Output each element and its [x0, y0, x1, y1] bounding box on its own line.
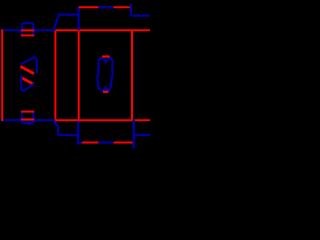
bottom flap F4 left diagonal edge (blue)	[53, 120, 78, 135]
flap F1 left diagonal edge (blue)	[53, 15, 78, 31]
slot right blue edge	[109, 57, 113, 91]
slot top notch V	[102, 58, 110, 62]
tab T1 bottom red cut	[21, 34, 34, 36]
bottom flap F6 bottom edge (blue)	[134, 134, 150, 136]
bottom flap F5 left fold (blue vertical with foot)	[78, 121, 82, 143]
wire: top cut line (red)	[55, 29, 150, 31]
slot bottom notch	[103, 87, 108, 90]
bottom flap F5 bottom edge red	[82, 142, 98, 144]
bottom flap F5 bottom edge blue	[98, 141, 113, 143]
wire: bottom fold line (blue, crease)	[1, 119, 55, 121]
node: panel divider V6 (red cut)	[131, 31, 133, 119]
wire: bottom cut line (red)	[55, 119, 150, 121]
tear glyph red stripe 1	[20, 66, 34, 73]
wire: left edge cut (red vertical)	[1, 29, 3, 121]
tab T1 top (blue outline, rounded top)	[22, 23, 33, 36]
flap F2 top edge segment blue	[98, 6, 113, 8]
slot bottom red cut	[103, 91, 108, 93]
slot top red cut	[102, 55, 110, 57]
tear glyph blue bottom stroke	[21, 76, 34, 91]
bottom flap F6 left fold (blue vertical)	[132, 120, 134, 149]
node: panel divider V5 (red cut)	[78, 31, 80, 119]
tab T2 bottom (blue outline, rounded bottom)	[22, 111, 33, 123]
flap F2 left fold (blue vertical)	[78, 6, 80, 30]
slot left blue edge	[97, 57, 103, 91]
tear glyph red stripe 2	[20, 77, 34, 84]
flap F3 top edge (blue)	[131, 15, 150, 17]
flap F2 top edge segment red	[79, 6, 99, 8]
node: panel divider V4 (red cut)	[54, 31, 56, 119]
tear glyph blue top stroke	[21, 57, 37, 74]
wire: top fold line (blue, crease)	[1, 29, 55, 31]
bottom flap F5 bottom edge red 2	[114, 142, 133, 144]
flap F3 left fold (blue vertical)	[130, 4, 132, 16]
tab T1 mid red cut	[21, 29, 34, 31]
flap F2 top edge segment red 2	[114, 6, 131, 8]
tab T2 mid red cut	[21, 119, 34, 121]
tab T2 top red cut	[21, 111, 34, 113]
